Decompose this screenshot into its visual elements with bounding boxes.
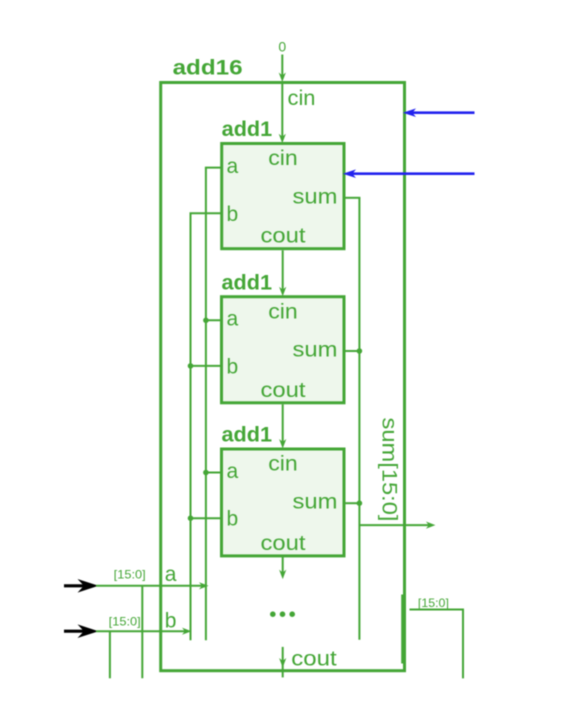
junction sum box3: [357, 500, 363, 506]
svg-text:a: a: [227, 460, 239, 483]
svg-text:add1: add1: [222, 118, 273, 141]
svg-text:[15:0]: [15:0]: [114, 568, 146, 582]
wire sum output arrow: [359, 524, 429, 526]
wire cout box1 to cin box2: [282, 250, 284, 290]
svg-text:b: b: [227, 203, 239, 226]
svg-text:b: b: [227, 356, 239, 379]
svg-text:b: b: [227, 508, 239, 531]
svg-text:cin: cin: [268, 300, 298, 323]
wire cout box2 to cin box3: [282, 404, 284, 442]
svg-text:cout: cout: [291, 647, 337, 670]
wire a to box2: [205, 319, 221, 321]
svg-text:a: a: [165, 563, 177, 586]
junction sum box2: [357, 348, 363, 354]
add1 box 2: [222, 297, 345, 403]
ellipsis dots: [270, 611, 276, 617]
wire cin from constant 0 to add16 top edge: [281, 55, 283, 76]
module add16 outer box: [161, 83, 405, 671]
wire input a: [96, 585, 203, 587]
wire cout output going down through add16 bottom edge: [282, 647, 284, 678]
stub wire below b: [109, 631, 111, 678]
blue wire into add16 right edge: [412, 111, 475, 114]
wire sum box1 to bus: [345, 197, 360, 199]
input b black arrow: [64, 630, 85, 633]
svg-text:a: a: [227, 308, 239, 331]
wire input b: [96, 630, 186, 632]
wire cin into first add1: [281, 83, 283, 137]
wire cout box3 going down: [282, 557, 284, 573]
svg-text:add1: add1: [222, 423, 273, 446]
wire b to box1: [190, 212, 222, 214]
wire thin along right edge: [401, 595, 403, 664]
wire sum box3 to bus: [345, 502, 360, 504]
svg-text:add1: add1: [222, 271, 273, 294]
svg-text:cin: cin: [268, 147, 298, 170]
wire a to box3: [205, 472, 221, 474]
svg-text:cout: cout: [261, 379, 306, 402]
wire b to box2: [190, 365, 222, 367]
wire a to box1: [205, 167, 221, 169]
sum bus vertical wire: [358, 198, 360, 640]
wire sum box2 to bus: [345, 350, 360, 352]
svg-text:add16: add16: [173, 57, 243, 80]
stub wire below a: [141, 586, 143, 679]
b bus vertical wire: [190, 213, 192, 640]
junction a box3: [203, 470, 209, 476]
add1 box 1: [222, 144, 344, 249]
svg-text:cin: cin: [268, 453, 298, 476]
svg-text:b: b: [165, 609, 177, 632]
add1 box 3: [222, 449, 345, 556]
svg-text:sum: sum: [293, 339, 338, 362]
a bus vertical wire: [205, 168, 207, 641]
svg-text:sum[15:0]: sum[15:0]: [378, 418, 401, 522]
svg-text:[15:0]: [15:0]: [418, 596, 449, 610]
junction b box2: [188, 363, 194, 369]
wire sum external going right and down: [410, 610, 464, 679]
svg-text:cout: cout: [261, 225, 306, 248]
svg-text:cout: cout: [261, 532, 306, 555]
svg-text:sum: sum: [293, 491, 338, 514]
blue wire into add1 box1 right edge: [352, 172, 475, 175]
wire b to box3: [190, 517, 222, 519]
svg-text:[15:0]: [15:0]: [109, 615, 141, 629]
svg-text:cin: cin: [288, 87, 316, 110]
junction b box3: [188, 515, 194, 521]
svg-text:a: a: [227, 155, 239, 178]
junction a box2: [203, 318, 209, 324]
svg-text:sum: sum: [293, 185, 338, 208]
input a black arrow: [64, 584, 85, 587]
svg-text:0: 0: [278, 39, 286, 55]
